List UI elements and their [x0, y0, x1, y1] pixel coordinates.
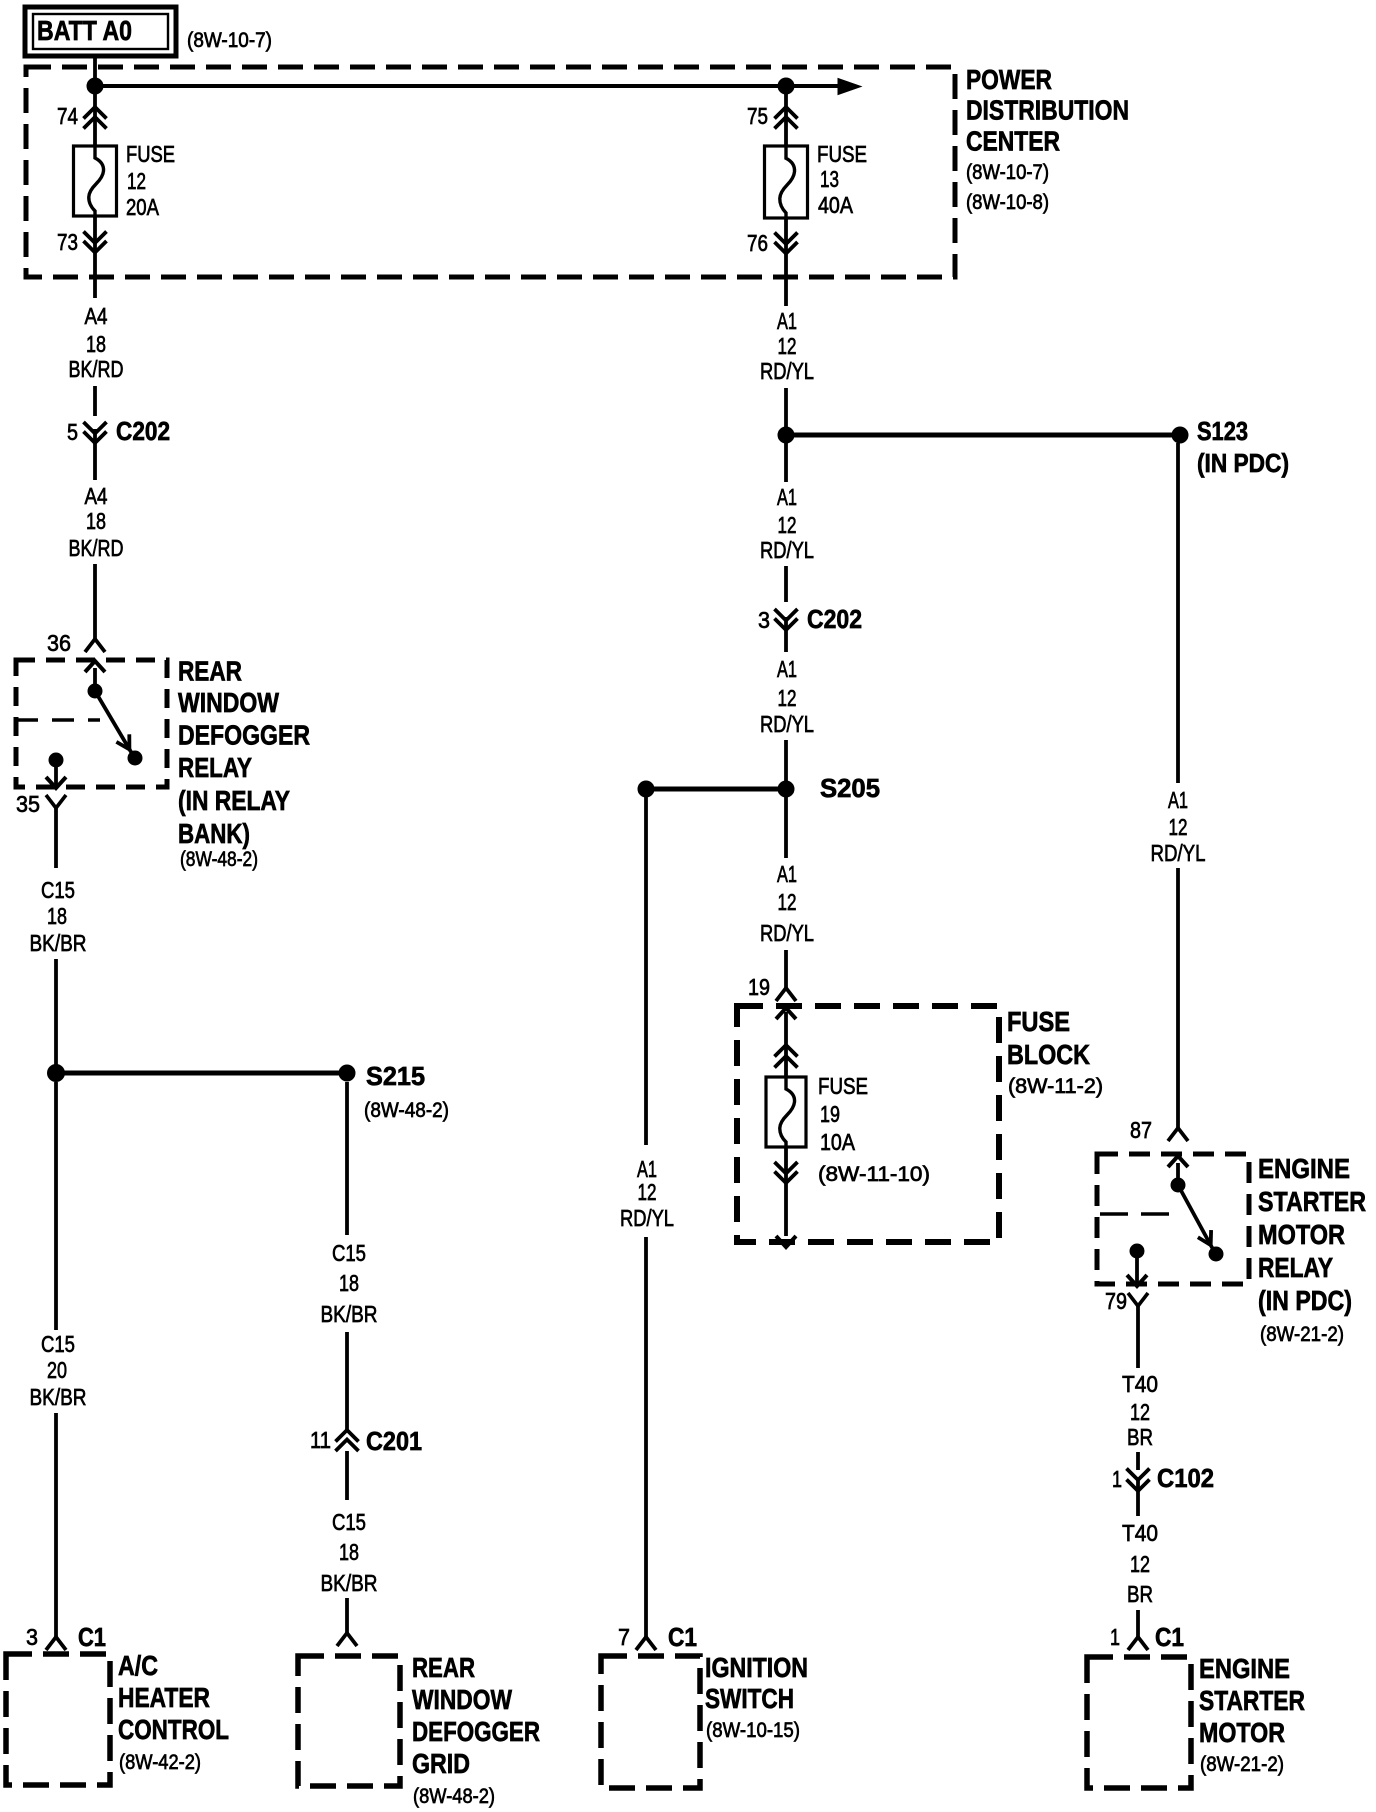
svg-text:19: 19 — [748, 974, 770, 1000]
svg-text:40A: 40A — [818, 192, 854, 218]
svg-text:DISTRIBUTION: DISTRIBUTION — [966, 95, 1129, 126]
svg-text:A1: A1 — [777, 308, 797, 334]
junction node at fuse 13 feed — [778, 78, 794, 94]
svg-text:FUSE: FUSE — [1007, 1006, 1070, 1037]
svg-text:18: 18 — [339, 1270, 359, 1296]
svg-text:18: 18 — [86, 331, 106, 357]
svg-text:12: 12 — [778, 889, 797, 915]
wire label T40 12 BR (above C102) — [1122, 1371, 1158, 1450]
svg-text:A1: A1 — [777, 656, 797, 682]
svg-text:HEATER: HEATER — [118, 1682, 210, 1713]
svg-text:20: 20 — [47, 1357, 67, 1383]
svg-text:STARTER: STARTER — [1258, 1186, 1366, 1217]
svg-text:RELAY: RELAY — [1258, 1252, 1333, 1283]
pin 87 connector fork — [1168, 1128, 1188, 1141]
starter relay switch end dot — [1209, 1247, 1223, 1261]
starter relay output arrowhead pin 79 — [1127, 1275, 1147, 1286]
svg-text:20A: 20A — [126, 194, 160, 220]
REAR WINDOW DEFOGGER GRID label — [412, 1652, 540, 1808]
wire label A1 12 RD/YL (ignition feed) — [620, 1156, 674, 1231]
fuse F19 output double chevron down — [775, 1147, 798, 1236]
svg-text:(8W-10-8): (8W-10-8) — [966, 191, 1049, 214]
svg-text:10A: 10A — [820, 1129, 856, 1155]
FUSE BLOCK dashed box — [737, 1006, 999, 1242]
pin 35 connector fork — [46, 795, 66, 808]
fuse block wire to chevrons — [784, 1012, 788, 1077]
svg-text:5: 5 — [67, 419, 78, 445]
svg-text:BR: BR — [1127, 1424, 1153, 1450]
svg-text:BK/BR: BK/BR — [321, 1570, 378, 1596]
svg-text:(8W-11-10): (8W-11-10) — [818, 1163, 930, 1186]
wire label C15 20 BK/BR — [30, 1331, 87, 1410]
splice S123 bus wire — [794, 433, 1172, 438]
wire label A4 18 BK/RD (lower) — [69, 483, 124, 561]
ENGINE STARTER MOTOR RELAY dashed box — [1097, 1154, 1249, 1284]
svg-text:C15: C15 — [41, 1331, 75, 1357]
svg-text:RD/YL: RD/YL — [760, 537, 814, 563]
svg-text:A1: A1 — [777, 484, 797, 510]
svg-text:A4: A4 — [85, 483, 108, 509]
svg-text:POWER: POWER — [966, 64, 1052, 95]
pin 19 connector fork — [776, 988, 796, 1001]
IGNITION SWITCH label — [705, 1652, 808, 1742]
svg-text:BLOCK: BLOCK — [1007, 1039, 1090, 1070]
A/C HEATER CONTROL dashed box — [6, 1654, 110, 1785]
svg-text:CONTROL: CONTROL — [118, 1714, 229, 1745]
fuse F12 symbol — [74, 146, 117, 216]
fuse block output arrowhead — [776, 1236, 796, 1247]
svg-text:3: 3 — [758, 607, 770, 633]
svg-text:A1: A1 — [1168, 787, 1188, 813]
splice S205 node — [778, 781, 794, 797]
splice S205 left node — [638, 781, 654, 797]
svg-text:(8W-48-2): (8W-48-2) — [364, 1099, 449, 1122]
svg-text:35: 35 — [16, 791, 40, 817]
splice S205 bus wire — [654, 787, 778, 792]
bus wire B+ across PDC to arrow — [95, 84, 838, 88]
svg-text:11: 11 — [310, 1427, 331, 1453]
svg-text:BANK): BANK) — [178, 818, 250, 849]
junction node at fuse 12 feed — [87, 78, 103, 94]
pin 3 connector fork at C1 — [46, 1637, 66, 1650]
svg-text:IGNITION: IGNITION — [705, 1652, 808, 1683]
svg-text:T40: T40 — [1122, 1371, 1158, 1397]
svg-text:MOTOR: MOTOR — [1199, 1717, 1285, 1748]
wire down to ignition switch pin 7 — [644, 1237, 648, 1637]
pin 7 connector fork at C1 — [636, 1637, 656, 1650]
relay input arrowhead pin 36 — [85, 661, 105, 672]
starter relay contact pivot dot — [1171, 1178, 1185, 1192]
wire down to starter relay pin 87 — [1176, 868, 1180, 1128]
svg-text:GRID: GRID — [412, 1748, 470, 1779]
svg-text:RD/YL: RD/YL — [760, 358, 814, 384]
defogger grid connector fork — [337, 1633, 357, 1646]
pin 74 connector (double chevron up) — [84, 86, 107, 146]
splice S123 junction node — [778, 427, 794, 443]
REAR WINDOW DEFOGGER RELAY dashed box — [16, 660, 167, 787]
wire to connector C202 pin 3 — [784, 566, 788, 602]
svg-text:(8W-21-2): (8W-21-2) — [1200, 1753, 1284, 1776]
svg-text:18: 18 — [47, 903, 67, 929]
svg-text:FUSE: FUSE — [817, 141, 867, 167]
wire below S205 — [784, 797, 788, 858]
splice S215 left node — [48, 1065, 65, 1082]
starter relay switch blade with arrow — [1178, 1185, 1215, 1253]
starter relay internal dashed line — [1100, 1212, 1174, 1216]
wire from BATT A0 into PDC — [93, 56, 97, 86]
fuse F12 label FUSE 12 20A — [126, 141, 175, 220]
svg-text:(8W-10-7): (8W-10-7) — [966, 161, 1049, 184]
svg-text:(8W-10-15): (8W-10-15) — [706, 1719, 800, 1742]
svg-text:RD/YL: RD/YL — [760, 920, 814, 946]
svg-text:12: 12 — [778, 685, 797, 711]
svg-text:13: 13 — [820, 166, 839, 192]
relay internal dashed line — [16, 718, 100, 722]
svg-text:12: 12 — [638, 1179, 657, 1205]
ENGINE STARTER MOTOR dashed box — [1087, 1657, 1191, 1788]
svg-text:C15: C15 — [332, 1240, 366, 1266]
fuse F13 label FUSE 13 40A — [817, 141, 867, 218]
svg-text:A1: A1 — [777, 861, 797, 887]
wire below C201 — [345, 1451, 349, 1500]
svg-text:12: 12 — [127, 168, 146, 194]
svg-text:C202: C202 — [807, 604, 862, 634]
svg-text:(8W-42-2): (8W-42-2) — [119, 1751, 201, 1774]
wire down to A/C heater control — [54, 1413, 58, 1637]
svg-text:12: 12 — [1130, 1399, 1150, 1425]
svg-text:C1: C1 — [78, 1622, 106, 1652]
svg-text:S215: S215 — [366, 1061, 425, 1091]
svg-text:RD/YL: RD/YL — [1151, 840, 1206, 866]
connector C201 pin 11 (double chevron up) — [336, 1430, 359, 1451]
wire label C15 18 BK/BR (left column) — [30, 877, 87, 956]
svg-text:RD/YL: RD/YL — [760, 711, 814, 737]
relay common wire to contact — [93, 668, 97, 685]
svg-text:12: 12 — [1169, 814, 1188, 840]
splice S215 right node — [339, 1065, 355, 1081]
svg-text:(8W-48-2): (8W-48-2) — [180, 848, 258, 871]
svg-text:ENGINE: ENGINE — [1199, 1653, 1290, 1684]
svg-text:C202: C202 — [116, 416, 170, 446]
svg-text:RD/YL: RD/YL — [620, 1205, 674, 1231]
wire down to defogger grid — [345, 1598, 349, 1633]
wire down to defogger relay pin 36 — [93, 564, 97, 639]
wire label A4 18 BK/RD (upper) — [69, 303, 124, 382]
starter relay input arrowhead pin 87 — [1168, 1156, 1188, 1167]
wire label C15 18 BK/BR (above C201) — [321, 1240, 378, 1327]
svg-text:C15: C15 — [332, 1509, 366, 1535]
svg-text:S123: S123 — [1197, 416, 1248, 446]
svg-text:BK/BR: BK/BR — [30, 1384, 87, 1410]
splice S123 node — [1172, 427, 1188, 443]
svg-text:18: 18 — [339, 1539, 359, 1565]
fuse F13 symbol — [765, 146, 808, 218]
svg-text:C15: C15 — [41, 877, 75, 903]
FUSE BLOCK label — [1007, 1006, 1103, 1098]
svg-text:(8W-48-2): (8W-48-2) — [413, 1785, 495, 1808]
fuse block input arrowhead — [776, 1008, 796, 1019]
svg-text:12: 12 — [1130, 1551, 1150, 1577]
svg-text:C1: C1 — [668, 1622, 697, 1652]
wire label A1 12 RD/YL (starter relay feed) — [1151, 787, 1206, 866]
svg-text:12: 12 — [778, 333, 797, 359]
svg-text:FUSE: FUSE — [818, 1073, 868, 1099]
wire down to S123 junction — [784, 388, 788, 435]
svg-text:1: 1 — [1112, 1466, 1122, 1492]
svg-text:19: 19 — [820, 1101, 840, 1127]
arrowhead on bus wire — [838, 79, 861, 95]
svg-text:36: 36 — [47, 630, 71, 656]
splice S215 bus wire — [64, 1071, 340, 1076]
svg-text:1: 1 — [1110, 1624, 1120, 1650]
svg-text:76: 76 — [747, 230, 768, 256]
svg-text:RELAY: RELAY — [178, 752, 252, 783]
svg-text:C1: C1 — [1155, 1622, 1184, 1652]
wire from pin 35 down — [54, 808, 58, 868]
svg-text:(8W-21-2): (8W-21-2) — [1260, 1323, 1344, 1346]
svg-text:S205: S205 — [820, 773, 880, 803]
svg-text:WINDOW: WINDOW — [412, 1684, 512, 1715]
relay switch end dot — [128, 751, 142, 765]
pin 75 connector (double chevron up) — [775, 86, 798, 146]
svg-text:7: 7 — [618, 1624, 630, 1650]
svg-text:A4: A4 — [85, 303, 108, 329]
REAR WINDOW DEFOGGER RELAY label — [178, 656, 310, 872]
wire label A1 12 RD/YL (above S123 junction) — [760, 308, 814, 384]
relay output wire to pin 35 — [54, 760, 58, 786]
svg-text:87: 87 — [1130, 1117, 1152, 1143]
svg-text:74: 74 — [57, 103, 78, 129]
svg-text:BR: BR — [1127, 1581, 1153, 1607]
wire S215 down left branch — [54, 1082, 58, 1330]
wire label A1 12 RD/YL (above S205) — [760, 656, 814, 737]
wire label A1 12 RD/YL (above C202) — [760, 484, 814, 563]
pin 76 connector (double chevron down) — [775, 218, 798, 258]
svg-text:79: 79 — [1105, 1288, 1127, 1314]
wire label A1 12 RD/YL (above fuse block) — [760, 861, 814, 946]
starter relay common wire — [1176, 1163, 1180, 1180]
wire from S123 down — [1176, 443, 1180, 783]
POWER DISTRIBUTION CENTER dashed box — [26, 67, 955, 277]
svg-text:ENGINE: ENGINE — [1258, 1153, 1350, 1184]
connector C102 pin 1 (double chevron down) — [1136, 1452, 1140, 1470]
svg-text:3: 3 — [26, 1624, 38, 1650]
svg-text:DEFOGGER: DEFOGGER — [412, 1716, 540, 1747]
connector C202 pin 5 (double chevron down) — [84, 422, 107, 480]
starter relay output wire — [1135, 1251, 1139, 1283]
pin 73 connector (double chevron down) — [84, 216, 107, 258]
svg-text:BK/RD: BK/RD — [69, 535, 124, 561]
wire down to splice S205 — [784, 740, 788, 789]
wire from pin 79 down — [1136, 1306, 1140, 1368]
REAR WINDOW DEFOGGER GRID dashed box — [298, 1656, 400, 1786]
svg-text:C102: C102 — [1157, 1463, 1214, 1493]
svg-text:BATT A0: BATT A0 — [37, 15, 132, 46]
relay switch blade with arrow — [95, 691, 134, 757]
connector C202 pin 3 (double chevron down) — [775, 609, 798, 652]
svg-text:REAR: REAR — [178, 656, 242, 687]
pin 1 connector fork at C1 — [1128, 1637, 1148, 1650]
svg-text:BK/BR: BK/BR — [30, 930, 87, 956]
svg-text:(IN PDC): (IN PDC) — [1197, 448, 1289, 478]
svg-text:BK/RD: BK/RD — [69, 356, 124, 382]
svg-text:C201: C201 — [366, 1426, 422, 1456]
svg-text:MOTOR: MOTOR — [1258, 1219, 1345, 1250]
wire below S123 junction — [784, 443, 788, 482]
starter relay output contact dot — [1130, 1244, 1144, 1258]
pin 79 connector fork — [1128, 1293, 1148, 1306]
relay output arrowhead pin 35 — [46, 777, 66, 788]
svg-text:SWITCH: SWITCH — [705, 1683, 794, 1714]
svg-text:(IN RELAY: (IN RELAY — [178, 785, 290, 816]
svg-text:WINDOW: WINDOW — [178, 687, 279, 718]
wire label C15 18 BK/BR (below C201) — [321, 1509, 378, 1596]
wire from S205 down to ignition switch — [644, 789, 648, 1145]
wire down to fuse block pin 19 — [784, 950, 788, 988]
svg-text:75: 75 — [747, 103, 768, 129]
svg-text:73: 73 — [57, 229, 78, 255]
wire S215 right branch down — [345, 1082, 349, 1235]
wire down to engine starter motor — [1136, 1610, 1140, 1637]
battery feed symbol box BATT A0 — [25, 7, 176, 56]
svg-text:T40: T40 — [1122, 1520, 1158, 1546]
IGNITION SWITCH dashed box — [601, 1656, 700, 1788]
wire fuse 13 output exits PDC — [784, 258, 788, 306]
svg-text:(8W-11-2): (8W-11-2) — [1008, 1075, 1103, 1098]
svg-text:CENTER: CENTER — [966, 126, 1060, 157]
wire down to splice S215 — [54, 959, 58, 1073]
ENGINE STARTER MOTOR RELAY label — [1258, 1153, 1366, 1346]
wire to connector C201 pin 11 — [345, 1332, 349, 1430]
pin 36 connector fork — [85, 639, 105, 652]
relay contact pivot dot — [88, 684, 102, 698]
wire label T40 12 BR (below C102) — [1122, 1520, 1158, 1607]
svg-text:DEFOGGER: DEFOGGER — [178, 720, 310, 751]
wire fuse 12 output exits PDC — [93, 258, 97, 298]
svg-text:(8W-10-7): (8W-10-7) — [187, 29, 272, 52]
A/C HEATER CONTROL label — [118, 1650, 229, 1774]
svg-text:(IN PDC): (IN PDC) — [1258, 1285, 1352, 1316]
ENGINE STARTER MOTOR label — [1199, 1653, 1305, 1776]
fuse block double chevron up — [775, 1045, 798, 1068]
svg-text:12: 12 — [778, 512, 797, 538]
svg-text:A/C: A/C — [118, 1650, 158, 1681]
fuse F19 label FUSE 19 10A (8W-11-10) — [818, 1073, 930, 1186]
svg-text:STARTER: STARTER — [1199, 1685, 1305, 1716]
POWER DISTRIBUTION CENTER label — [966, 64, 1129, 214]
relay output contact dot — [49, 753, 63, 767]
wire to connector C202 pin 5 — [93, 386, 97, 416]
svg-text:18: 18 — [86, 508, 106, 534]
svg-text:BK/BR: BK/BR — [321, 1301, 378, 1327]
svg-text:REAR: REAR — [412, 1652, 475, 1683]
fuse F19 symbol — [766, 1077, 806, 1147]
svg-text:FUSE: FUSE — [126, 141, 175, 167]
